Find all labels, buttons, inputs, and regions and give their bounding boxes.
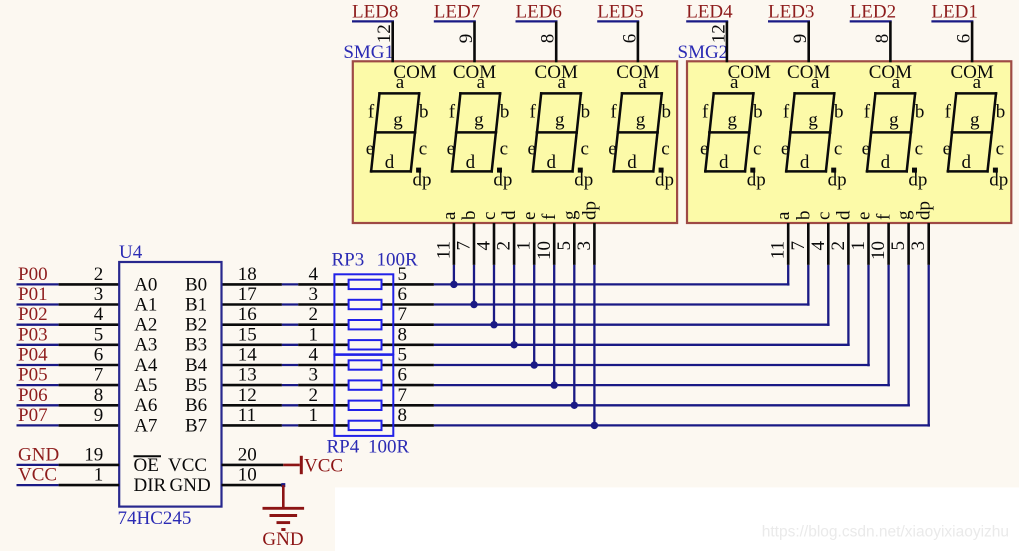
- svg-text:2: 2: [494, 241, 515, 251]
- svg-text:12: 12: [238, 385, 257, 406]
- svg-text:LED8: LED8: [352, 2, 398, 23]
- svg-text:8: 8: [398, 324, 408, 345]
- svg-text:a: a: [439, 211, 460, 220]
- svg-text:6: 6: [398, 284, 408, 305]
- wire B6 to RP (blue): [282, 404, 298, 406]
- wire segment net b (row to displays): [434, 303, 810, 305]
- wire segment net a (row to displays): [434, 283, 790, 285]
- svg-text:16: 16: [238, 304, 257, 325]
- U4 pin 3 stub (A1): [59, 303, 120, 306]
- svg-text:A2: A2: [134, 315, 157, 336]
- buffer U4 74HC245 body: [119, 262, 221, 507]
- U4 pin 1 stub (DIR): [59, 484, 120, 487]
- svg-text:7: 7: [94, 365, 104, 386]
- svg-text:e: e: [700, 139, 708, 160]
- svg-text:e: e: [862, 139, 870, 160]
- svg-text:RP4: RP4: [327, 436, 360, 457]
- svg-text:P05: P05: [18, 365, 48, 386]
- wire GND net (blue): [17, 464, 59, 466]
- svg-text:dp: dp: [828, 170, 847, 191]
- svg-text:A3: A3: [134, 335, 157, 356]
- svg-text:7: 7: [398, 304, 408, 325]
- svg-text:VCC: VCC: [304, 456, 343, 477]
- svg-text:B1: B1: [185, 294, 207, 315]
- wire: LED6 net stub (blue): [516, 20, 558, 22]
- svg-text:11: 11: [768, 241, 789, 259]
- svg-text:B0: B0: [185, 274, 207, 295]
- resistor element R2 in RP3: [349, 300, 382, 309]
- svg-text:c: c: [661, 139, 669, 160]
- svg-text:SMG1: SMG1: [343, 42, 394, 63]
- svg-text:d: d: [627, 152, 637, 173]
- svg-text:g: g: [894, 210, 915, 220]
- RP pin 4 stub: [298, 364, 434, 367]
- wire segment net c (row to displays): [434, 324, 830, 326]
- resistor element R6 in RP4: [349, 380, 382, 389]
- svg-text:f: f: [783, 102, 790, 123]
- svg-text:b: b: [661, 102, 671, 123]
- wire B2 to RP (blue): [282, 324, 298, 326]
- U4 pin 4 stub (A2): [59, 323, 120, 326]
- U4 pin 12 stub (B6): [222, 404, 282, 407]
- RP pin 2 stub: [298, 323, 434, 326]
- wire B3 to RP (blue): [282, 344, 298, 346]
- SMG1 pin stub g (pin 5): [573, 223, 576, 265]
- wire: SMG1 a vertical: [453, 265, 455, 286]
- svg-text:3: 3: [908, 241, 929, 251]
- COM pin wire for LED5: [637, 21, 640, 62]
- svg-text:dp: dp: [413, 170, 432, 191]
- U4 pin 6 stub (A4): [59, 364, 120, 367]
- svg-text:b: b: [581, 102, 591, 123]
- 7-segment display module SMG2 (yellow body): [687, 61, 1011, 223]
- wire P00 (blue): [17, 283, 59, 285]
- SMG2 digit 3 (7-seg glyph): [862, 72, 928, 191]
- svg-text:5: 5: [94, 324, 104, 345]
- svg-text:VCC: VCC: [18, 465, 57, 486]
- svg-text:dp: dp: [574, 170, 593, 191]
- svg-text:COM: COM: [393, 62, 436, 83]
- svg-text:b: b: [419, 102, 429, 123]
- wire: LED4 net stub (blue): [686, 20, 728, 22]
- resistor element R4 in RP3: [349, 340, 382, 349]
- svg-text:c: c: [915, 139, 923, 160]
- U4 pin 16 stub (B2): [222, 323, 282, 326]
- wire segment net d (row to displays): [434, 344, 850, 346]
- wire segment net e (row to displays): [434, 364, 870, 366]
- svg-text:9: 9: [94, 405, 104, 426]
- 7-segment display module SMG1 (yellow body): [353, 61, 677, 223]
- svg-text:P00: P00: [18, 264, 48, 285]
- svg-text:c: c: [479, 212, 500, 220]
- svg-text:b: b: [459, 211, 480, 221]
- svg-text:LED7: LED7: [434, 2, 480, 23]
- svg-text:P02: P02: [18, 304, 48, 325]
- svg-text:g: g: [393, 110, 403, 131]
- U4 pin 13 stub (B5): [222, 384, 282, 387]
- SMG1 pin stub c (pin 4): [493, 223, 496, 265]
- svg-text:e: e: [366, 139, 374, 160]
- svg-text:b: b: [753, 102, 763, 123]
- wire segment net dp (row to displays): [434, 424, 930, 426]
- wire: LED3 net stub (blue): [768, 20, 810, 22]
- junction at pin10 corner: [281, 483, 285, 487]
- wire: LED2 net stub (blue): [850, 20, 892, 22]
- svg-text:SMG2: SMG2: [678, 42, 729, 63]
- svg-text:6: 6: [398, 365, 408, 386]
- svg-text:g: g: [727, 110, 737, 131]
- svg-text:b: b: [500, 102, 510, 123]
- wire: SMG2 d vertical: [847, 265, 849, 346]
- U4 pin 19 stub (OE): [59, 464, 120, 467]
- U4 pin 8 stub (A6): [59, 404, 120, 407]
- COM pin wire for LED4: [726, 21, 729, 62]
- svg-text:COM: COM: [728, 62, 771, 83]
- svg-text:b: b: [793, 211, 814, 221]
- wire B4 to RP (blue): [282, 364, 298, 366]
- resistor element R1 in RP3: [349, 280, 382, 289]
- svg-text:8: 8: [538, 34, 559, 44]
- wire B5 to RP (blue): [282, 384, 298, 386]
- svg-text:20: 20: [238, 444, 257, 465]
- wire: SMG2 a vertical: [787, 265, 789, 286]
- svg-text:P01: P01: [18, 284, 48, 305]
- svg-text:d: d: [833, 210, 854, 220]
- resistor pack RP4 body: [334, 355, 393, 436]
- svg-text:B3: B3: [185, 335, 207, 356]
- U4 pin 20 stub (VCC): [222, 464, 284, 467]
- svg-text:3: 3: [94, 284, 104, 305]
- svg-text:dp: dp: [655, 170, 674, 191]
- svg-text:2: 2: [94, 264, 104, 285]
- svg-text:A7: A7: [134, 415, 157, 436]
- svg-text:d: d: [466, 152, 476, 173]
- svg-text:f: f: [874, 213, 895, 220]
- resistor element R7 in RP4: [349, 401, 382, 410]
- svg-text:A1: A1: [134, 294, 157, 315]
- svg-text:GND: GND: [262, 529, 303, 550]
- SMG2 pin stub g (pin 5): [907, 223, 910, 265]
- svg-text:g: g: [636, 110, 646, 131]
- RP pin 3 stub: [298, 384, 434, 387]
- svg-text:a: a: [773, 211, 794, 220]
- svg-text:6: 6: [954, 34, 975, 44]
- svg-text:8: 8: [398, 405, 408, 426]
- svg-text:2: 2: [828, 241, 849, 251]
- svg-text:3: 3: [574, 241, 595, 251]
- svg-text:B6: B6: [185, 395, 207, 416]
- svg-text:A0: A0: [134, 274, 157, 295]
- svg-text:1: 1: [848, 241, 869, 251]
- svg-text:1: 1: [514, 241, 535, 251]
- wire: SMG1 dp vertical: [593, 265, 595, 427]
- svg-text:d: d: [881, 152, 891, 173]
- svg-text:B4: B4: [185, 355, 208, 376]
- svg-text:dp: dp: [493, 170, 512, 191]
- SMG2 pin stub b (pin 7): [807, 223, 810, 265]
- svg-text:P04: P04: [18, 345, 48, 366]
- svg-text:e: e: [943, 139, 951, 160]
- svg-text:8: 8: [872, 34, 893, 44]
- wire: SMG2 f vertical: [887, 265, 889, 386]
- svg-text:VCC: VCC: [168, 455, 207, 476]
- junction dot net d: [510, 341, 517, 348]
- wire: SMG2 c vertical: [827, 265, 829, 326]
- svg-text:11: 11: [433, 241, 454, 259]
- wire: SMG1 f vertical: [553, 265, 555, 386]
- svg-text:e: e: [519, 212, 540, 220]
- wire: SMG2 dp vertical: [928, 265, 930, 427]
- svg-text:3: 3: [309, 284, 319, 305]
- svg-text:12: 12: [708, 24, 729, 43]
- SMG1 pin stub e (pin 1): [533, 223, 536, 265]
- svg-text:B5: B5: [185, 375, 207, 396]
- svg-text:d: d: [800, 152, 810, 173]
- svg-text:6: 6: [94, 345, 104, 366]
- U4 pin 11 stub (B7): [222, 424, 282, 427]
- svg-text:P03: P03: [18, 324, 48, 345]
- svg-text:B7: B7: [185, 415, 207, 436]
- wire: SMG2 g vertical: [907, 265, 909, 407]
- svg-text:f: f: [530, 102, 537, 123]
- svg-text:12: 12: [374, 24, 395, 43]
- svg-text:3: 3: [309, 365, 319, 386]
- COM pin wire for LED6: [555, 21, 558, 62]
- wire: LED5 net stub (blue): [597, 20, 639, 22]
- svg-text:d: d: [719, 152, 729, 173]
- svg-text:https://blog.csdn.net/xiaoyixi: https://blog.csdn.net/xiaoyixiaoyizhu: [762, 524, 1009, 541]
- svg-text:100R: 100R: [368, 436, 410, 457]
- U4 pin 10 stub (GND): [222, 484, 284, 487]
- wire: LED7 net stub (blue): [434, 20, 476, 22]
- COM pin wire for LED7: [473, 21, 476, 62]
- svg-text:f: f: [945, 102, 952, 123]
- svg-text:B2: B2: [185, 315, 207, 336]
- svg-text:dp: dp: [908, 170, 927, 191]
- svg-text:b: b: [996, 102, 1006, 123]
- junction dot net dp: [591, 422, 598, 429]
- svg-text:7: 7: [788, 241, 809, 251]
- svg-text:g: g: [889, 110, 899, 131]
- svg-text:LED4: LED4: [686, 2, 733, 23]
- svg-text:c: c: [753, 139, 761, 160]
- svg-text:1: 1: [94, 465, 104, 486]
- SMG2 digit 2 (7-seg glyph): [781, 72, 847, 191]
- svg-text:f: f: [368, 102, 375, 123]
- svg-text:g: g: [555, 110, 565, 131]
- wire P03 (blue): [17, 344, 59, 346]
- wire: LED1 net stub (blue): [931, 20, 973, 22]
- junction dot net b: [470, 301, 477, 308]
- wire P05 (blue): [17, 384, 59, 386]
- wire: SMG1 d vertical: [513, 265, 515, 346]
- SMG1 pin stub b (pin 7): [473, 223, 476, 265]
- svg-text:5: 5: [554, 241, 575, 251]
- svg-text:COM: COM: [535, 62, 578, 83]
- junction dot net f: [551, 381, 558, 388]
- SMG1 pin stub f (pin 10): [553, 223, 556, 265]
- svg-text:d: d: [385, 152, 395, 173]
- svg-text:g: g: [559, 210, 580, 220]
- svg-text:2: 2: [309, 385, 319, 406]
- SMG1 digit 4 (7-seg glyph): [608, 72, 674, 191]
- svg-text:f: f: [539, 213, 560, 220]
- COM pin wire for LED3: [807, 21, 810, 62]
- svg-text:5: 5: [888, 241, 909, 251]
- U4 pin 15 stub (B3): [222, 343, 282, 346]
- svg-text:10: 10: [534, 241, 555, 260]
- wire VCC net (blue): [17, 484, 59, 486]
- SMG1 digit 2 (7-seg glyph): [447, 72, 513, 191]
- U4 pin 5 stub (A3): [59, 343, 120, 346]
- U4 pin 7 stub (A5): [59, 384, 120, 387]
- svg-text:10: 10: [238, 465, 257, 486]
- RP pin 3 stub: [298, 303, 434, 306]
- svg-text:b: b: [915, 102, 925, 123]
- svg-text:f: f: [449, 102, 456, 123]
- U4 pin 18 stub (B0): [222, 283, 282, 286]
- svg-text:15: 15: [238, 324, 257, 345]
- SMG2 pin stub d (pin 2): [847, 223, 850, 265]
- svg-text:100R: 100R: [377, 249, 419, 270]
- wire: LED8 net stub (blue): [352, 20, 394, 22]
- junction dot net g: [571, 402, 578, 409]
- svg-text:c: c: [419, 139, 427, 160]
- svg-text:LED5: LED5: [597, 2, 643, 23]
- svg-text:COM: COM: [453, 62, 496, 83]
- svg-text:f: f: [864, 102, 871, 123]
- svg-text:4: 4: [94, 304, 104, 325]
- svg-text:RP3: RP3: [332, 249, 365, 270]
- svg-text:g: g: [474, 110, 484, 131]
- svg-text:c: c: [500, 139, 508, 160]
- wire B7 to RP (blue): [282, 424, 298, 426]
- svg-text:COM: COM: [616, 62, 659, 83]
- svg-text:1: 1: [309, 405, 319, 426]
- svg-text:d: d: [961, 152, 971, 173]
- svg-text:6: 6: [619, 34, 640, 44]
- svg-text:e: e: [854, 212, 875, 220]
- SMG1 pin stub a (pin 11): [453, 223, 456, 265]
- svg-text:A6: A6: [134, 395, 157, 416]
- svg-text:dp: dp: [914, 201, 935, 220]
- wire: SMG1 b vertical: [473, 265, 475, 306]
- wire segment net f (row to displays): [434, 384, 890, 386]
- svg-text:b: b: [834, 102, 844, 123]
- svg-text:5: 5: [398, 345, 408, 366]
- wire B1 to RP (blue): [282, 303, 298, 305]
- svg-text:A4: A4: [134, 355, 158, 376]
- svg-text:f: f: [610, 102, 617, 123]
- svg-text:GND: GND: [18, 444, 59, 465]
- wire P04 (blue): [17, 364, 59, 366]
- svg-text:GND: GND: [170, 475, 211, 496]
- RP pin 1 stub: [298, 424, 434, 427]
- wire: SMG2 b vertical: [807, 265, 809, 306]
- SMG1 digit 1 (7-seg glyph): [366, 72, 432, 191]
- svg-text:4: 4: [309, 264, 319, 285]
- svg-text:d: d: [499, 210, 520, 220]
- U4 pin 2 stub (A0): [59, 283, 120, 286]
- svg-text:e: e: [781, 139, 789, 160]
- U4 pin 9 stub (A7): [59, 424, 120, 427]
- junction dot net a: [450, 281, 457, 288]
- svg-text:1: 1: [309, 324, 319, 345]
- junction dot net c: [490, 321, 497, 328]
- wire P07 (blue): [17, 424, 59, 426]
- ground symbol (pin 10): [262, 485, 304, 550]
- COM pin wire for LED2: [889, 21, 892, 62]
- wire B0 to RP (blue): [282, 283, 298, 285]
- SMG2 pin stub f (pin 10): [887, 223, 890, 265]
- RP3 reference + value label 100R: [332, 249, 419, 270]
- svg-text:LED3: LED3: [768, 2, 814, 23]
- svg-text:4: 4: [474, 241, 495, 251]
- SMG2 digit 1 (7-seg glyph): [700, 72, 766, 191]
- resistor pack RP3 body: [334, 274, 393, 354]
- svg-text:COM: COM: [950, 62, 993, 83]
- svg-text:13: 13: [238, 365, 257, 386]
- svg-text:4: 4: [309, 345, 319, 366]
- COM pin wire for LED8: [391, 21, 394, 62]
- RP pin 2 stub: [298, 404, 434, 407]
- svg-text:8: 8: [94, 385, 104, 406]
- svg-text:c: c: [834, 139, 842, 160]
- svg-text:2: 2: [309, 304, 319, 325]
- svg-text:COM: COM: [787, 62, 830, 83]
- wire: SMG1 c vertical: [493, 265, 495, 326]
- U4 pin 17 stub (B1): [222, 303, 282, 306]
- svg-text:7: 7: [398, 385, 408, 406]
- svg-text:c: c: [996, 139, 1004, 160]
- svg-text:e: e: [447, 139, 455, 160]
- svg-text:9: 9: [456, 34, 477, 44]
- svg-text:dp: dp: [747, 170, 766, 191]
- svg-text:18: 18: [238, 264, 257, 285]
- RP4 reference + value label 100R: [327, 436, 410, 457]
- svg-text:e: e: [608, 139, 616, 160]
- RP pin 4 stub: [298, 283, 434, 286]
- svg-text:OE: OE: [134, 455, 159, 476]
- svg-text:A5: A5: [134, 375, 157, 396]
- SMG1 pin stub d (pin 2): [513, 223, 516, 265]
- svg-text:4: 4: [808, 241, 829, 251]
- svg-text:9: 9: [790, 34, 811, 44]
- svg-text:COM: COM: [869, 62, 912, 83]
- wire P06 (blue): [17, 404, 59, 406]
- resistor element R5 in RP4: [349, 360, 382, 369]
- power symbol VCC (pin 20): [283, 456, 343, 477]
- svg-text:c: c: [580, 139, 588, 160]
- svg-text:74HC245: 74HC245: [118, 508, 192, 529]
- wire P01 (blue): [17, 303, 59, 305]
- svg-text:19: 19: [84, 444, 103, 465]
- svg-text:LED2: LED2: [850, 2, 896, 23]
- svg-text:c: c: [813, 212, 834, 220]
- svg-text:LED1: LED1: [931, 2, 977, 23]
- svg-text:DIR: DIR: [134, 475, 167, 496]
- svg-text:e: e: [527, 139, 535, 160]
- svg-text:14: 14: [238, 345, 257, 366]
- resistor element R8 in RP4: [349, 421, 382, 430]
- SMG2 pin stub c (pin 4): [827, 223, 830, 265]
- wire: SMG1 g vertical: [573, 265, 575, 407]
- COM pin wire for LED1: [971, 21, 974, 62]
- svg-text:7: 7: [454, 241, 475, 251]
- svg-text:P06: P06: [18, 385, 48, 406]
- svg-text:U4: U4: [119, 242, 143, 263]
- SMG2 pin stub e (pin 1): [867, 223, 870, 265]
